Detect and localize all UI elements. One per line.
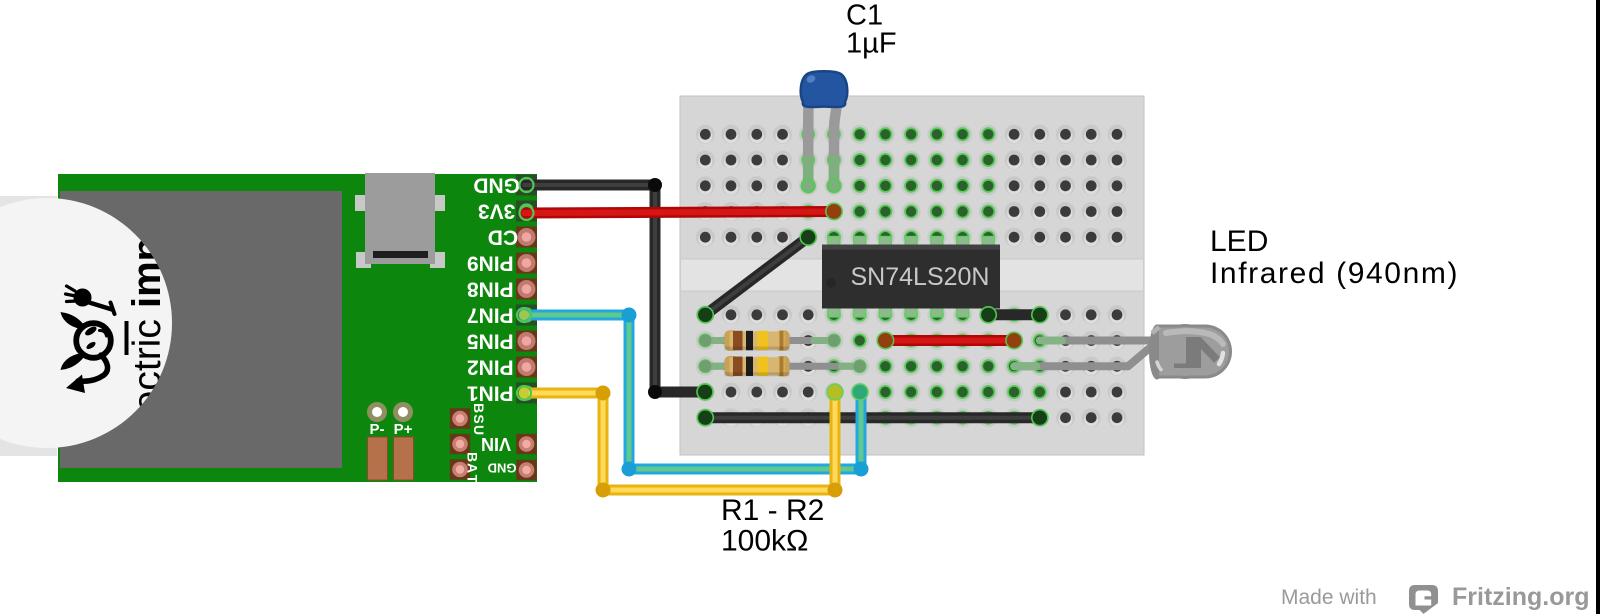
capacitor C1 1uF (801, 71, 848, 192)
svg-text:P+: P+ (394, 421, 413, 438)
imp edge pads with pin labels (516, 175, 537, 196)
label USB (471, 403, 487, 435)
wire PIN7 cyan (524, 308, 869, 477)
label BAT (465, 452, 481, 484)
svg-text:B: B (465, 452, 481, 462)
electric imp board PCB (58, 174, 537, 482)
breadboard (680, 96, 1144, 455)
long black rail wire (697, 410, 1048, 426)
svg-text:CD: CD (488, 226, 518, 249)
LED infrared body (1149, 324, 1232, 380)
svg-text:PIN1: PIN1 (467, 382, 514, 405)
svg-text:GND: GND (473, 174, 520, 197)
svg-text:LED: LED (1210, 225, 1268, 258)
green rings over wire ends at imp pads (517, 178, 534, 400)
right border bar (1596, 0, 1600, 614)
black jumper wire (IC GND to rail) (980, 307, 1048, 323)
svg-text:SN74LS20N: SN74LS20N (851, 263, 990, 291)
BAT USB VIN GND pads (450, 408, 537, 480)
svg-text:T: T (465, 475, 481, 484)
svg-text:S: S (471, 414, 487, 423)
svg-text:P-: P- (370, 421, 385, 438)
svg-text:PIN2: PIN2 (467, 356, 514, 379)
LED leads (1014, 341, 1157, 367)
electric imp logo character (62, 286, 115, 393)
resistor R1 100k (699, 330, 840, 350)
svg-text:1µF: 1µF (846, 28, 897, 60)
svg-text:B: B (471, 403, 487, 413)
USB connector (355, 173, 445, 268)
svg-text:Infrared (940nm): Infrared (940nm) (1210, 257, 1459, 290)
red jumper wire (877, 332, 1022, 348)
svg-text:U: U (471, 425, 487, 435)
svg-text:Made with: Made with (1281, 586, 1377, 609)
svg-text:GND: GND (488, 461, 517, 476)
diagonal black jumper wire (697, 229, 816, 323)
P- P+ pads (367, 402, 413, 422)
battery solder pads (368, 437, 414, 480)
wire PIN1 yellow (524, 384, 843, 498)
breadboard holes (696, 125, 1127, 427)
svg-text:3V3: 3V3 (478, 200, 515, 223)
svg-text:100kΩ: 100kΩ (721, 525, 808, 558)
svg-text:PIN7: PIN7 (467, 304, 514, 327)
wire 3V3 red (524, 203, 842, 219)
svg-text:VIN: VIN (481, 434, 511, 454)
SD card socket (60, 191, 342, 468)
resistor R2 100k (699, 356, 865, 376)
wire GND (imp GND to breadboard) black (524, 178, 713, 400)
svg-text:A: A (465, 463, 481, 473)
svg-text:PIN8: PIN8 (467, 278, 514, 301)
imp card (SD card) (0, 196, 172, 456)
svg-text:R1 - R2: R1 - R2 (721, 494, 824, 527)
op IC U1 SN74LS20N (822, 237, 1000, 318)
svg-text:Fritzing.org: Fritzing.org (1452, 583, 1589, 611)
svg-text:PIN9: PIN9 (467, 252, 514, 275)
svg-text:PIN5: PIN5 (467, 330, 514, 353)
